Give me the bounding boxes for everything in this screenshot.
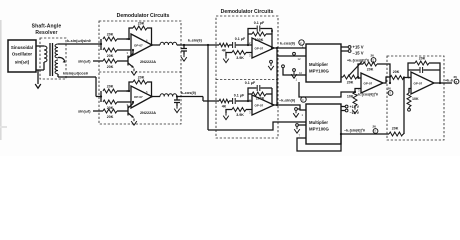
supply stub +15V U4	[341, 46, 348, 48]
resistor 20K Q1 base	[103, 59, 117, 63]
svg-text:k₁sin(ωt)sinθ: k₁sin(ωt)sinθ	[67, 39, 91, 43]
demodulator box 2 divider	[216, 79, 278, 81]
svg-text:Demodulator Circuits: Demodulator Circuits	[117, 13, 170, 19]
svg-text:+15 V: +15 V	[353, 45, 364, 50]
ground arrow C	[293, 111, 299, 118]
ground under Q2 emitter	[131, 119, 137, 126]
svg-text:OP-07: OP-07	[134, 95, 143, 99]
ground arrow D	[294, 127, 300, 134]
demodulator circuits box 2	[216, 16, 278, 138]
resistor 20K demod1 noninverting input	[103, 48, 117, 52]
svg-text:20K: 20K	[347, 81, 354, 85]
node k1 cos output wire	[58, 74, 101, 97]
terminal circle ground A	[270, 60, 273, 63]
node summing inverting	[357, 76, 359, 78]
svg-text:0.1 μF: 0.1 μF	[254, 21, 265, 25]
node demod2 output	[150, 95, 152, 97]
capacitor C2 to ground	[176, 95, 178, 97]
resolver dashed box	[40, 38, 66, 79]
terminal circle U8	[408, 108, 411, 111]
resistor 20K final feedback	[408, 63, 415, 78]
svg-text:0.1 μF: 0.1 μF	[235, 37, 246, 41]
svg-text:MPY100G: MPY100G	[309, 127, 329, 132]
wire vertical link demod2 outputs	[276, 48, 278, 105]
wire into U3 inverting	[248, 44, 252, 46]
svg-text:2N2222A: 2N2222A	[140, 111, 156, 115]
wire k2 sin into multiplier 2	[208, 122, 306, 130]
resolver secondary winding upper	[55, 44, 58, 58]
wire demod2 output	[177, 97, 219, 102]
svg-text:Oscillator: Oscillator	[12, 52, 33, 57]
wire k2 sin down	[207, 45, 209, 130]
svg-text:k₁sin(ωt)cosθ: k₁sin(ωt)cosθ	[63, 72, 88, 76]
svg-text:20K: 20K	[367, 68, 374, 72]
node U5 output	[389, 82, 391, 84]
svg-text:10: 10	[299, 71, 303, 75]
resistor 4K filter B	[219, 99, 229, 103]
ground under Q1 emitter	[131, 69, 137, 76]
capacitor 0.1uF filter A	[229, 44, 232, 46]
node demod1 output	[150, 44, 152, 46]
svg-text:3.9K: 3.9K	[236, 56, 244, 60]
svg-text:Multiplier: Multiplier	[309, 62, 328, 67]
sinusoidal oscillator box	[8, 40, 36, 72]
svg-text:OP-07: OP-07	[414, 82, 423, 86]
capacitor C1 to ground	[183, 44, 185, 46]
svg-text:−15 V: −15 V	[353, 51, 364, 56]
node k1 sin output wire	[58, 43, 101, 45]
op-amp U1	[127, 34, 153, 56]
svg-text:2N2222A: 2N2222A	[140, 60, 156, 64]
terminal circle ground B	[293, 69, 296, 72]
svg-text:20K: 20K	[107, 65, 114, 69]
svg-text:26: 26	[454, 75, 458, 79]
ground U3	[223, 56, 229, 63]
svg-text:+k₃θ: +k₃θ	[445, 79, 453, 83]
resistor 3.9K U3 noninverting	[246, 52, 252, 54]
resolver primary winding	[44, 46, 47, 62]
node U3 output	[271, 47, 273, 49]
wire bottom to final inverting	[403, 78, 405, 135]
multiplier U4 MPY100G	[302, 44, 341, 82]
resolver secondary winding lower	[55, 60, 58, 74]
resistor 20K summing input	[341, 76, 343, 78]
resistor 20K Q2 base	[103, 109, 117, 113]
inductor L1	[160, 42, 177, 45]
svg-text:20K: 20K	[392, 127, 399, 131]
wire demod1 output to demod box 2	[177, 44, 219, 46]
multiplier U7 Z-feedback loop	[297, 134, 341, 151]
ground under C1	[181, 55, 187, 62]
resistor 20K demod2 noninverting input	[103, 100, 117, 104]
svg-text:OP-07: OP-07	[255, 47, 264, 51]
svg-text:OP-07: OP-07	[134, 44, 143, 48]
node final inverting	[403, 76, 405, 78]
svg-text:0.1 μF: 0.1 μF	[245, 81, 256, 85]
wire U5 output to final stage	[383, 77, 390, 83]
multiplier U7 MPY100G	[302, 104, 342, 144]
svg-text:Demodulator Circuits: Demodulator Circuits	[221, 9, 274, 15]
op-amp U3	[249, 38, 274, 58]
node demod1 input junction	[100, 43, 102, 45]
svg-text:10K: 10K	[412, 97, 419, 101]
svg-text:Resolver: Resolver	[35, 30, 57, 36]
op-amp U5	[358, 73, 383, 93]
transistor Q1 2N2222A	[117, 49, 156, 68]
svg-text:10K: 10K	[347, 95, 354, 99]
capacitor 0.1uF feedback B	[248, 88, 257, 101]
svg-text:20K: 20K	[107, 33, 114, 37]
ground arrow B	[291, 72, 297, 79]
node filter A summing	[247, 44, 249, 46]
resistor 20K summing feedback	[358, 64, 363, 77]
svg-text:k₂cos(θ): k₂cos(θ)	[280, 42, 296, 46]
svg-text:−k₂[sin(θ)]²θ: −k₂[sin(θ)]²θ	[344, 129, 365, 133]
terminal circle ground C	[295, 108, 298, 111]
wire oscillator to resolver bottom	[36, 62, 44, 84]
node tap junction	[207, 44, 209, 46]
svg-text:0.1 μF: 0.1 μF	[234, 94, 245, 98]
capacitor 0.1uF filter B	[229, 100, 232, 102]
svg-text:−k₂sin(θ): −k₂sin(θ)	[279, 99, 296, 103]
svg-text:20K: 20K	[107, 115, 114, 119]
wire multiplier1 pin2	[277, 55, 306, 57]
svg-text:+k₂[cos(θ)]²θ: +k₂[cos(θ)]²θ	[347, 59, 369, 63]
ground U5	[352, 107, 358, 114]
resistor 100K feedback B	[248, 93, 252, 95]
op-amp U2	[127, 86, 153, 108]
wire oscillator to resolver top	[36, 45, 44, 47]
resistor 20K final input	[390, 76, 404, 80]
terminal circle pin10	[282, 65, 285, 68]
svg-text:+15 V: +15 V	[350, 105, 360, 109]
wire U8 output	[434, 82, 452, 84]
resistor 20K demod2 inverting input	[103, 89, 117, 93]
resistor 4K filter A	[219, 43, 229, 47]
label Shaft-Angle Resolver	[32, 24, 62, 37]
node demod2 input junction	[100, 95, 102, 97]
demodulator box 1 divider	[99, 71, 181, 73]
svg-text:20K: 20K	[138, 22, 145, 26]
node filter B summing	[247, 100, 249, 102]
svg-text:k₂sin(θ): k₂sin(θ)	[188, 39, 203, 43]
demodulator circuits box 1	[99, 21, 181, 124]
svg-text:Multiplier: Multiplier	[309, 120, 328, 125]
svg-text:OP-07: OP-07	[364, 82, 373, 86]
wire U3b output to multiplier 2	[274, 105, 306, 110]
op-amp U8	[408, 72, 434, 94]
svg-text:26: 26	[371, 54, 375, 58]
svg-text:Shaft-Angle: Shaft-Angle	[32, 24, 62, 30]
wire into U6 inverting	[248, 100, 252, 102]
ref circle 2	[299, 40, 304, 45]
svg-text:20K: 20K	[419, 57, 426, 61]
resistor 20K demod2 feedback	[128, 90, 130, 92]
svg-text:−15 V: −15 V	[350, 111, 360, 115]
capacitor final feedback	[408, 69, 419, 71]
ground arrow A	[268, 63, 274, 70]
svg-text:3.9K: 3.9K	[236, 113, 244, 117]
scan smudge bottom left	[0, 126, 7, 128]
svg-text:−k₂[cos(θ)]²θ: −k₂[cos(θ)]²θ	[356, 93, 378, 97]
multiplier U4 Z-feedback loop	[299, 82, 355, 97]
supply stub -15V U7	[341, 110, 345, 112]
terminal circle pin2	[293, 52, 296, 55]
rotor wiper arrow	[58, 57, 65, 60]
op-amp U6	[249, 95, 274, 115]
terminal circle ground D	[296, 124, 299, 127]
wire U8 noninverting	[409, 89, 411, 94]
resistor 3.9K U6 noninverting	[246, 109, 252, 111]
svg-text:4K: 4K	[222, 105, 227, 109]
supply stub -15V U4	[341, 50, 348, 52]
supply stub +15V U7	[341, 106, 345, 108]
svg-text:20K: 20K	[107, 54, 114, 58]
svg-text:sin(ωt): sin(ωt)	[15, 60, 30, 65]
resistor 20K bottom input	[389, 132, 403, 136]
node U8 output	[439, 82, 441, 84]
svg-text:20K: 20K	[393, 70, 400, 74]
wire U7 output	[341, 133, 389, 135]
wire multiplier1 pin10	[283, 68, 306, 75]
svg-text:MPY100G: MPY100G	[309, 69, 329, 74]
final stage dashed box	[387, 56, 444, 140]
resistor 20K demod1 feedback	[128, 38, 130, 40]
resistor 100K feedback A	[248, 33, 252, 35]
inductor L2	[160, 94, 177, 97]
wire sin reference 2	[93, 110, 103, 112]
resistor 20K demod1 inverting input	[103, 37, 117, 41]
wire U3 output to multiplier 1	[274, 47, 306, 49]
resolver core lines	[50, 43, 53, 76]
node U7 output	[340, 133, 342, 135]
svg-text:20K: 20K	[138, 76, 145, 80]
svg-text:20K: 20K	[107, 85, 114, 89]
resistor 10K U8	[407, 93, 411, 107]
svg-text:k₂cos(θ): k₂cos(θ)	[181, 91, 197, 95]
svg-text:Sinusoidal: Sinusoidal	[11, 45, 33, 50]
svg-text:12: 12	[298, 57, 302, 61]
capacitor 0.1uF feedback A	[248, 29, 257, 46]
svg-text:OP-07: OP-07	[255, 104, 264, 108]
transistor Q2 2N2222A	[117, 101, 156, 118]
svg-text:26: 26	[388, 87, 392, 91]
wire sin reference 1	[93, 60, 103, 62]
callout diagonal	[348, 62, 362, 77]
svg-text:sin(ωt): sin(ωt)	[78, 110, 91, 114]
scan smudge left edge	[0, 20, 2, 140]
wire U5 noninverting	[355, 89, 361, 93]
svg-text:sin(ωt): sin(ωt)	[78, 60, 91, 64]
resistor 10K U5 to ground	[353, 92, 357, 106]
ground U6	[223, 113, 229, 120]
svg-text:26: 26	[373, 125, 377, 129]
ground under C2	[174, 106, 180, 113]
ground under oscillator return	[35, 84, 41, 88]
